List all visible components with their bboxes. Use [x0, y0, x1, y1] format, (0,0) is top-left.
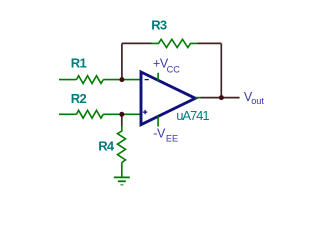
svg-text:R1: R1 [71, 56, 87, 71]
svg-text:-V: -V [153, 126, 166, 140]
op-amp VEE supply pin [157, 116, 159, 126]
resistor R4 [118, 126, 126, 163]
svg-text:CC: CC [167, 64, 181, 74]
wire: feedback right vertical down to output node [220, 43, 222, 97]
wire: feedback top left segment [122, 42, 152, 44]
svg-text:EE: EE [166, 133, 178, 143]
wire: op-amp output stub [195, 97, 200, 99]
label +VCC [153, 57, 180, 75]
wire: output to Vout terminal [201, 97, 240, 99]
junction: inverting input node [119, 77, 124, 82]
junction: output node [219, 95, 224, 100]
op-amp inverting input marker (-) [145, 79, 149, 81]
label R1 [71, 56, 87, 71]
resistor R1 [76, 76, 103, 84]
op-amp U1 triangle [141, 72, 195, 125]
op-amp VCC supply pin [157, 73, 159, 81]
wire: R4 to ground [121, 163, 123, 178]
resistor R3 [152, 39, 198, 47]
svg-text:uA741: uA741 [176, 108, 209, 123]
label uA741 [176, 108, 209, 123]
wire: feedback left vertical (node A up from inverting input) [121, 43, 123, 79]
label Vout [244, 90, 265, 106]
wire: inverting input line through R1 to op-amp [59, 79, 141, 81]
svg-text:R2: R2 [71, 91, 87, 106]
ground [114, 177, 130, 184]
label R4 [98, 139, 115, 154]
svg-text:R4: R4 [98, 139, 115, 154]
wire: feedback top right segment [198, 42, 222, 44]
resistor R2 [76, 110, 103, 118]
junction: non-inverting input node [119, 112, 124, 117]
wire: branch from non-inverting node down to R4 [121, 114, 123, 126]
wire: non-inverting input line through R2 to op-amp [59, 113, 141, 115]
label -VEE [153, 126, 178, 143]
svg-text:out: out [251, 96, 264, 106]
op-amp non-inverting input marker (+) [143, 110, 147, 114]
svg-text:R3: R3 [151, 18, 167, 33]
label R3 [151, 18, 167, 33]
label R2 [71, 91, 87, 106]
